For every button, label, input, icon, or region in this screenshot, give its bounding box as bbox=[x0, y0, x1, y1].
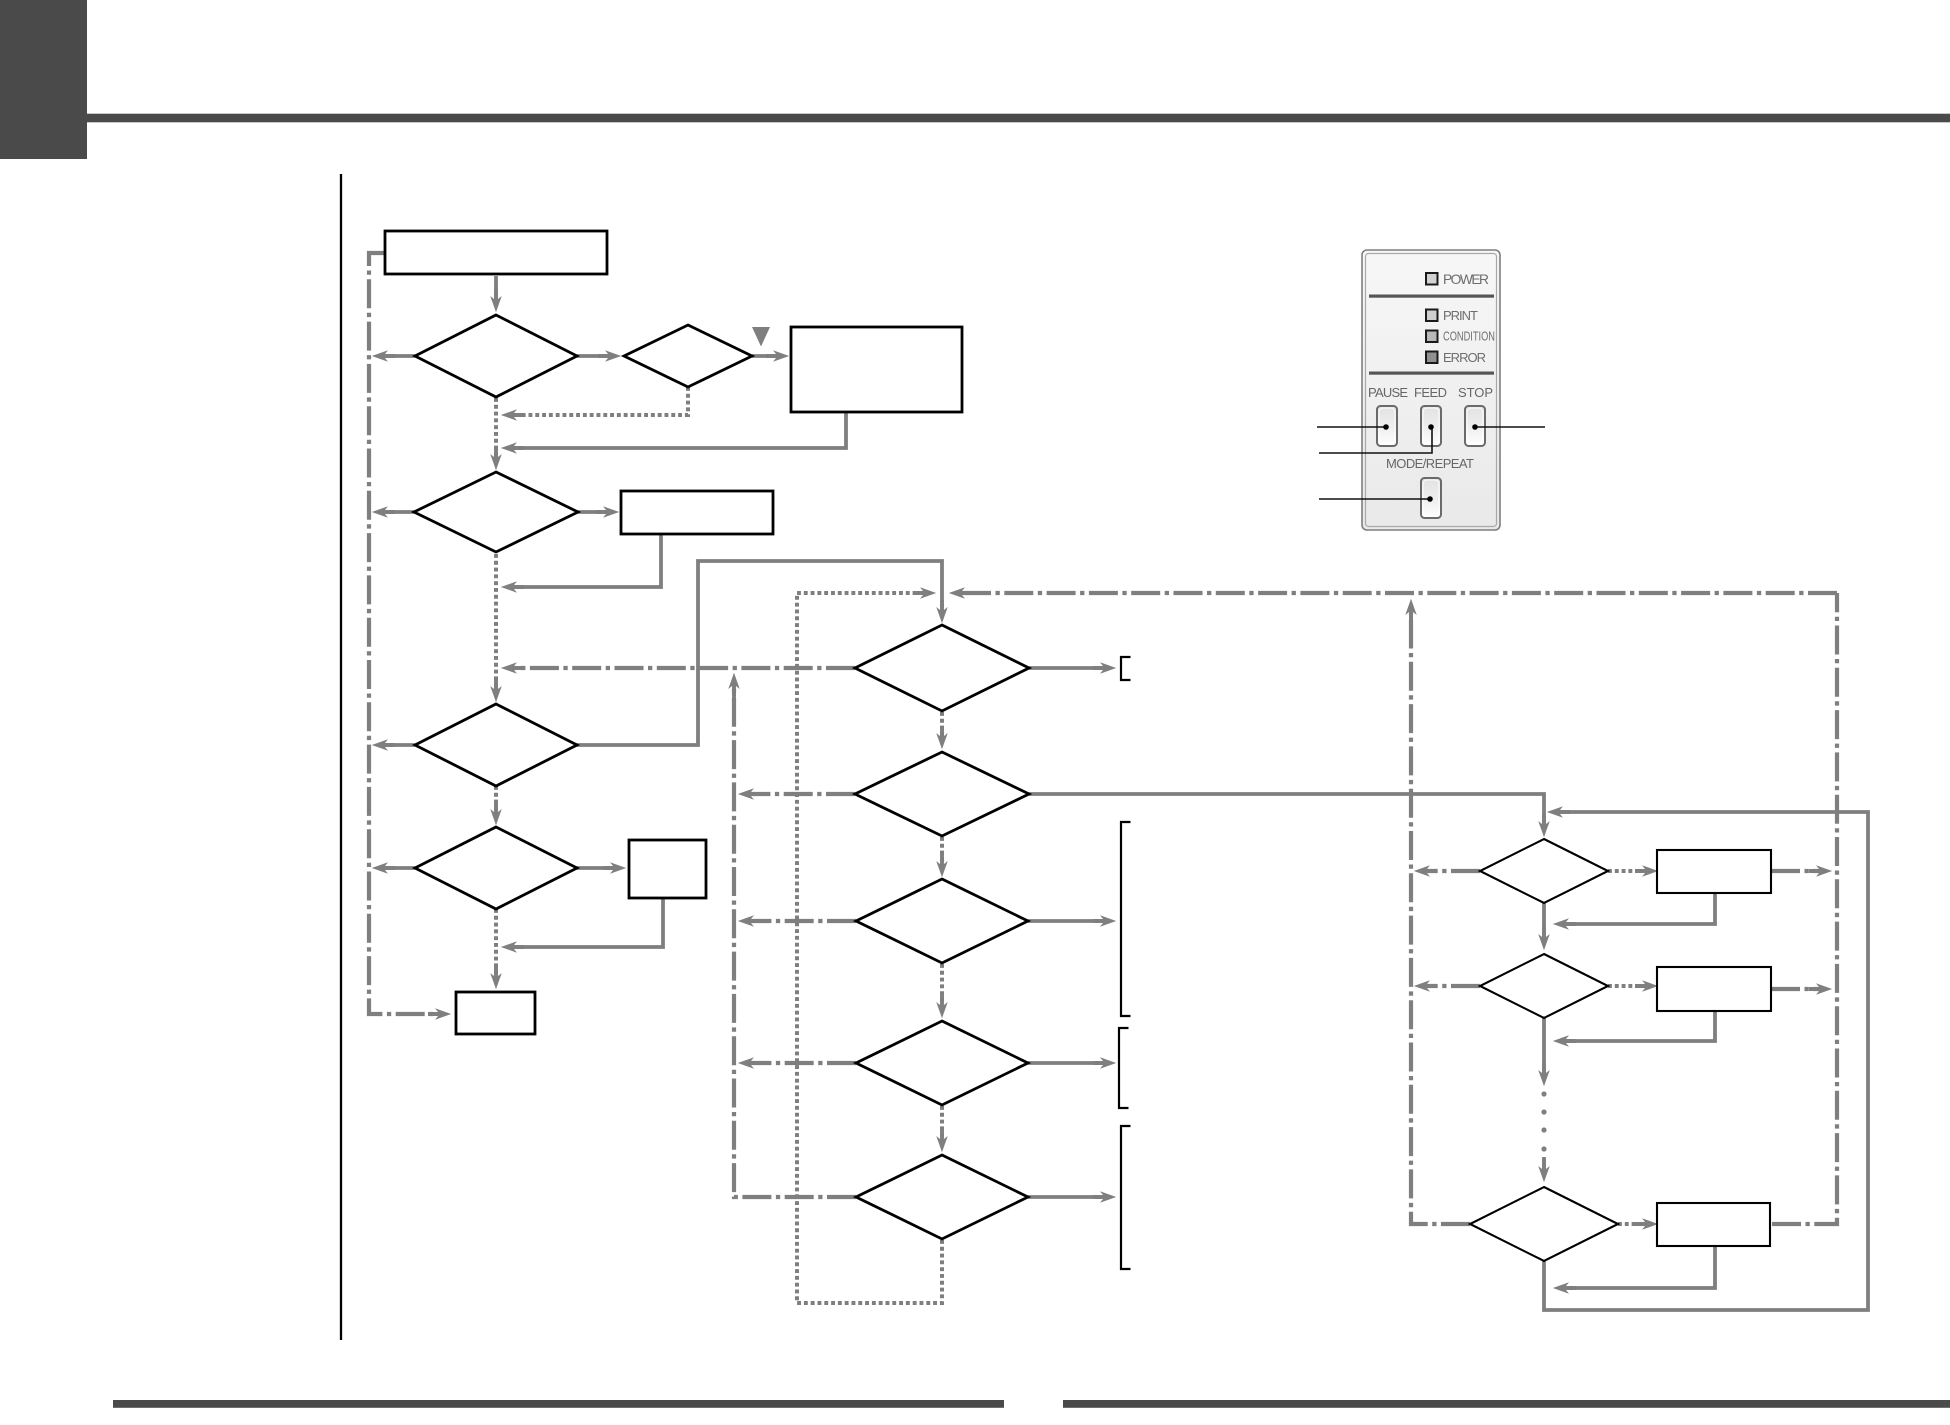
wire left dashdot rail R column bbox=[1411, 610, 1470, 1224]
wire D1 left bbox=[383, 354, 415, 358]
wire box3 return bbox=[512, 534, 661, 587]
wire box2 return bbox=[512, 412, 846, 448]
wire M1 down dotted bbox=[940, 712, 944, 738]
wire M1 left dashdot bbox=[512, 666, 855, 670]
panel divider 2 bbox=[1369, 372, 1494, 375]
bracket ref 2 bbox=[1121, 822, 1131, 1016]
wire box1 to D1 bbox=[494, 276, 498, 301]
decision R1 bbox=[1480, 839, 1608, 903]
wire boxR3 return bbox=[1564, 1246, 1715, 1288]
process box B4 bbox=[629, 840, 706, 898]
decision D2 bbox=[624, 325, 752, 387]
process box BR1 bbox=[1657, 850, 1771, 893]
footer bar right bbox=[1063, 1400, 1950, 1408]
wire rail stub under up-arrow R bbox=[1409, 610, 1413, 632]
decision M1 bbox=[855, 625, 1029, 711]
svg-text:POWER: POWER bbox=[1443, 272, 1489, 287]
wire M3 left dashdot bbox=[749, 919, 856, 923]
header rule bar bbox=[87, 114, 1950, 123]
wire box4 return bbox=[512, 898, 663, 947]
wire M5 left dashdot rail up bbox=[734, 684, 856, 1197]
flowchart left border bbox=[340, 174, 342, 1340]
svg-text:CONDITION: CONDITION bbox=[1443, 329, 1495, 344]
wire D1 down dotted bbox=[494, 398, 498, 459]
callout line STOP bbox=[1475, 426, 1545, 428]
decision M3 bbox=[856, 879, 1028, 963]
decision D4 bbox=[415, 704, 577, 786]
process box B1 bbox=[385, 231, 607, 274]
decision M5 bbox=[856, 1155, 1028, 1239]
svg-text:ERROR: ERROR bbox=[1443, 350, 1486, 365]
svg-text:STOP: STOP bbox=[1458, 385, 1493, 400]
ERROR LED bbox=[1426, 352, 1438, 364]
wire M4 right bbox=[1028, 1061, 1105, 1065]
wire D5 down dotted bbox=[494, 909, 498, 978]
wire D4 left bbox=[383, 743, 415, 747]
decision D3 bbox=[414, 472, 578, 552]
wire M2 down dotted bbox=[940, 837, 944, 866]
wire R1 left dashdot bbox=[1425, 869, 1480, 873]
wire D3 to box3 bbox=[578, 510, 608, 514]
callout dot MODE bbox=[1427, 496, 1433, 502]
svg-text:FEED: FEED bbox=[1414, 385, 1447, 400]
decision M2 bbox=[855, 752, 1029, 836]
wire dashdot left rail bbox=[369, 253, 440, 1014]
callout dot PAUSE bbox=[1383, 424, 1389, 430]
decision D1 bbox=[415, 315, 577, 397]
wire M2 to R1 bbox=[1029, 794, 1544, 826]
wire M3 right bbox=[1028, 919, 1105, 923]
wire right dashdot rail down bbox=[1772, 593, 1837, 1224]
process box B2 bbox=[791, 327, 962, 412]
svg-text:PRINT: PRINT bbox=[1443, 308, 1478, 323]
wire D1 to D2 bbox=[577, 354, 610, 358]
wire boxR2 right dashdot bbox=[1771, 987, 1821, 991]
callout dot STOP bbox=[1472, 424, 1478, 430]
wire R2 to boxR2 dotted bbox=[1608, 984, 1647, 988]
wire R2 down bbox=[1542, 1018, 1546, 1075]
wire boxR2 return bbox=[1564, 1011, 1715, 1041]
FEED button bbox=[1421, 406, 1441, 446]
process box B5 bbox=[456, 992, 535, 1034]
POWER LED bbox=[1426, 273, 1438, 285]
control panel body bbox=[1362, 250, 1500, 530]
decision R2 bbox=[1480, 954, 1608, 1018]
wire R3 feedback loop bbox=[1544, 812, 1868, 1310]
wire R2 left dashdot bbox=[1425, 984, 1480, 988]
wire boxR1 return bbox=[1564, 893, 1715, 924]
wire into R3 bbox=[1542, 1157, 1546, 1171]
svg-text:MODE/REPEAT: MODE/REPEAT bbox=[1386, 456, 1474, 471]
wire D5 to box4 bbox=[576, 866, 615, 870]
MODE button bbox=[1421, 478, 1441, 518]
callout dot FEED bbox=[1428, 424, 1434, 430]
STOP button bbox=[1465, 406, 1485, 446]
wire D2 bottom dotted bbox=[512, 387, 688, 415]
bracket ref 1 bbox=[1121, 657, 1131, 680]
wire D3 left bbox=[383, 510, 414, 514]
decision M4 bbox=[856, 1021, 1028, 1105]
wire D4 to M1 bbox=[576, 561, 942, 745]
footer bar left bbox=[113, 1400, 1004, 1408]
wire D3 down dotted bbox=[494, 554, 498, 691]
PRINT LED bbox=[1426, 310, 1438, 322]
wire M3 down dotted bbox=[940, 964, 944, 1007]
decision D5 bbox=[415, 827, 577, 909]
wire M2 left dashdot bbox=[749, 792, 855, 796]
CONDITION LED bbox=[1426, 331, 1438, 343]
wire M5 loop dotted bbox=[797, 593, 942, 1303]
callout line PAUSE bbox=[1317, 426, 1386, 428]
wire M1 right bbox=[1029, 666, 1105, 670]
callout line MODE bbox=[1319, 498, 1430, 500]
panel divider 1 bbox=[1369, 295, 1494, 298]
process box BR2 bbox=[1657, 967, 1771, 1011]
marker triangle pointer bbox=[752, 327, 770, 347]
wire boxR1 right dashdot bbox=[1771, 869, 1821, 873]
ellipsis dots bbox=[1541, 1091, 1546, 1151]
wire M4 down dotted bbox=[940, 1106, 944, 1141]
process box BR3 bbox=[1657, 1203, 1770, 1246]
process box B3 bbox=[621, 491, 773, 534]
wire D2 to box2 bbox=[752, 354, 778, 358]
wire M5 right bbox=[1028, 1195, 1105, 1199]
wire R1 to R2 bbox=[1542, 903, 1546, 939]
wire R3 to boxR3 dotted bbox=[1618, 1222, 1647, 1226]
wire right top dashdot bbox=[960, 591, 1837, 595]
wire rail stub under up-arrow M bbox=[732, 684, 736, 702]
bracket ref 4 bbox=[1121, 1126, 1131, 1269]
bracket ref 3 bbox=[1119, 1028, 1129, 1108]
svg-text:PAUSE: PAUSE bbox=[1368, 385, 1408, 400]
PAUSE button bbox=[1377, 406, 1397, 446]
header corner block bbox=[0, 0, 87, 159]
decision R3 bbox=[1470, 1187, 1618, 1261]
wire D4 down dotted bbox=[494, 786, 498, 814]
callout line FEED bbox=[1319, 427, 1432, 453]
wire M4 left dashdot bbox=[749, 1061, 856, 1065]
wire R1 to boxR1 dotted bbox=[1608, 869, 1647, 873]
wire D5 left bbox=[383, 866, 415, 870]
